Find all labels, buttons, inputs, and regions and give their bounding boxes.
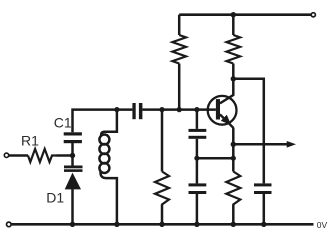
junction dot bypass-ground — [261, 222, 266, 227]
wire rail down to collector resistor — [232, 15, 235, 35]
output arrowhead — [287, 141, 296, 148]
wire emitter resistor to ground — [232, 205, 235, 224]
resistor (emitter) — [226, 172, 240, 206]
ground terminal — [7, 222, 12, 227]
svg-text:C1: C1 — [54, 115, 72, 131]
wire base to feedback capacitor — [196, 110, 199, 129]
supply terminal — [311, 13, 315, 17]
transistor Q1 emitter arrowhead — [221, 115, 231, 125]
wire between divider caps — [196, 139, 199, 184]
transistor Q1 emitter lead — [220, 114, 234, 128]
wire C1 to tank top wire — [73, 110, 133, 133]
junction dot divider-ground — [194, 222, 199, 227]
junction dot base-bias upper — [177, 107, 182, 112]
svg-text:R1: R1 — [21, 132, 39, 148]
coupling capacitor (tank to base) — [132, 103, 142, 119]
wire D1 to ground rail — [71, 189, 74, 224]
junction dot emitter-ground — [231, 222, 236, 227]
wire collector branch right — [233, 79, 263, 184]
wire top rail corner down to upper bias resistor — [178, 15, 181, 35]
inductor L1 coil loops — [99, 135, 109, 174]
junction dot collector resistor top — [231, 12, 236, 17]
wire lower bias resistor to ground — [161, 205, 164, 224]
top rail (supply) — [179, 13, 311, 16]
wire divider midpoint to emitter — [197, 157, 233, 160]
junction dot collector bypass branch — [231, 76, 236, 81]
wire down to lower bias resistor — [161, 110, 164, 172]
wire emitter-ground cap to ground — [196, 194, 199, 224]
wire input to R1 — [9, 154, 28, 157]
base wire — [142, 108, 216, 111]
junction dot divider midpoint — [194, 156, 199, 161]
junction dot lower-bias-ground — [159, 222, 164, 227]
junction dot inductor top — [114, 107, 119, 112]
feedback capacitor (base-emitter) — [189, 129, 207, 139]
inductor L1 bottom lead — [101, 171, 117, 224]
varactor diode D1 — [64, 166, 83, 190]
wire node A up to C1 — [71, 143, 74, 156]
output wire — [233, 143, 288, 146]
inductor L1 top lead — [101, 110, 117, 136]
input terminal (tuning voltage) — [4, 153, 8, 157]
svg-text:0V: 0V — [317, 220, 328, 230]
capacitor C1 — [64, 132, 82, 143]
resistor (base bias upper) — [172, 35, 186, 64]
junction dot inductor-ground — [114, 222, 119, 227]
collector bypass capacitor — [254, 183, 272, 194]
junction dot emitter-output — [231, 142, 236, 147]
transistor Q1 collector lead — [220, 95, 234, 104]
junction dot base-bias lower — [159, 107, 164, 112]
wire node A down to D1 — [71, 156, 74, 166]
junction dot emitter-divider — [231, 156, 236, 161]
wire upper bias resistor to base wire — [178, 64, 181, 110]
wire R1 to node A — [57, 154, 73, 157]
svg-text:D1: D1 — [46, 190, 64, 206]
ground rail 0V — [11, 223, 313, 226]
transistor Q1 base bar — [216, 99, 220, 119]
resistor (collector load) — [227, 35, 241, 64]
feedback capacitor (emitter-ground) — [189, 183, 207, 194]
emitter wire down — [232, 128, 235, 172]
junction dot base-capdivider — [194, 107, 199, 112]
wire bypass cap to ground — [263, 194, 266, 224]
resistor (base bias lower) — [155, 172, 169, 206]
resistor R1 — [28, 149, 57, 162]
wire collector resistor to collector — [232, 64, 235, 96]
node A junction dot — [70, 153, 75, 158]
junction dot D1-ground — [70, 222, 75, 227]
transistor Q1 circle — [208, 96, 237, 125]
